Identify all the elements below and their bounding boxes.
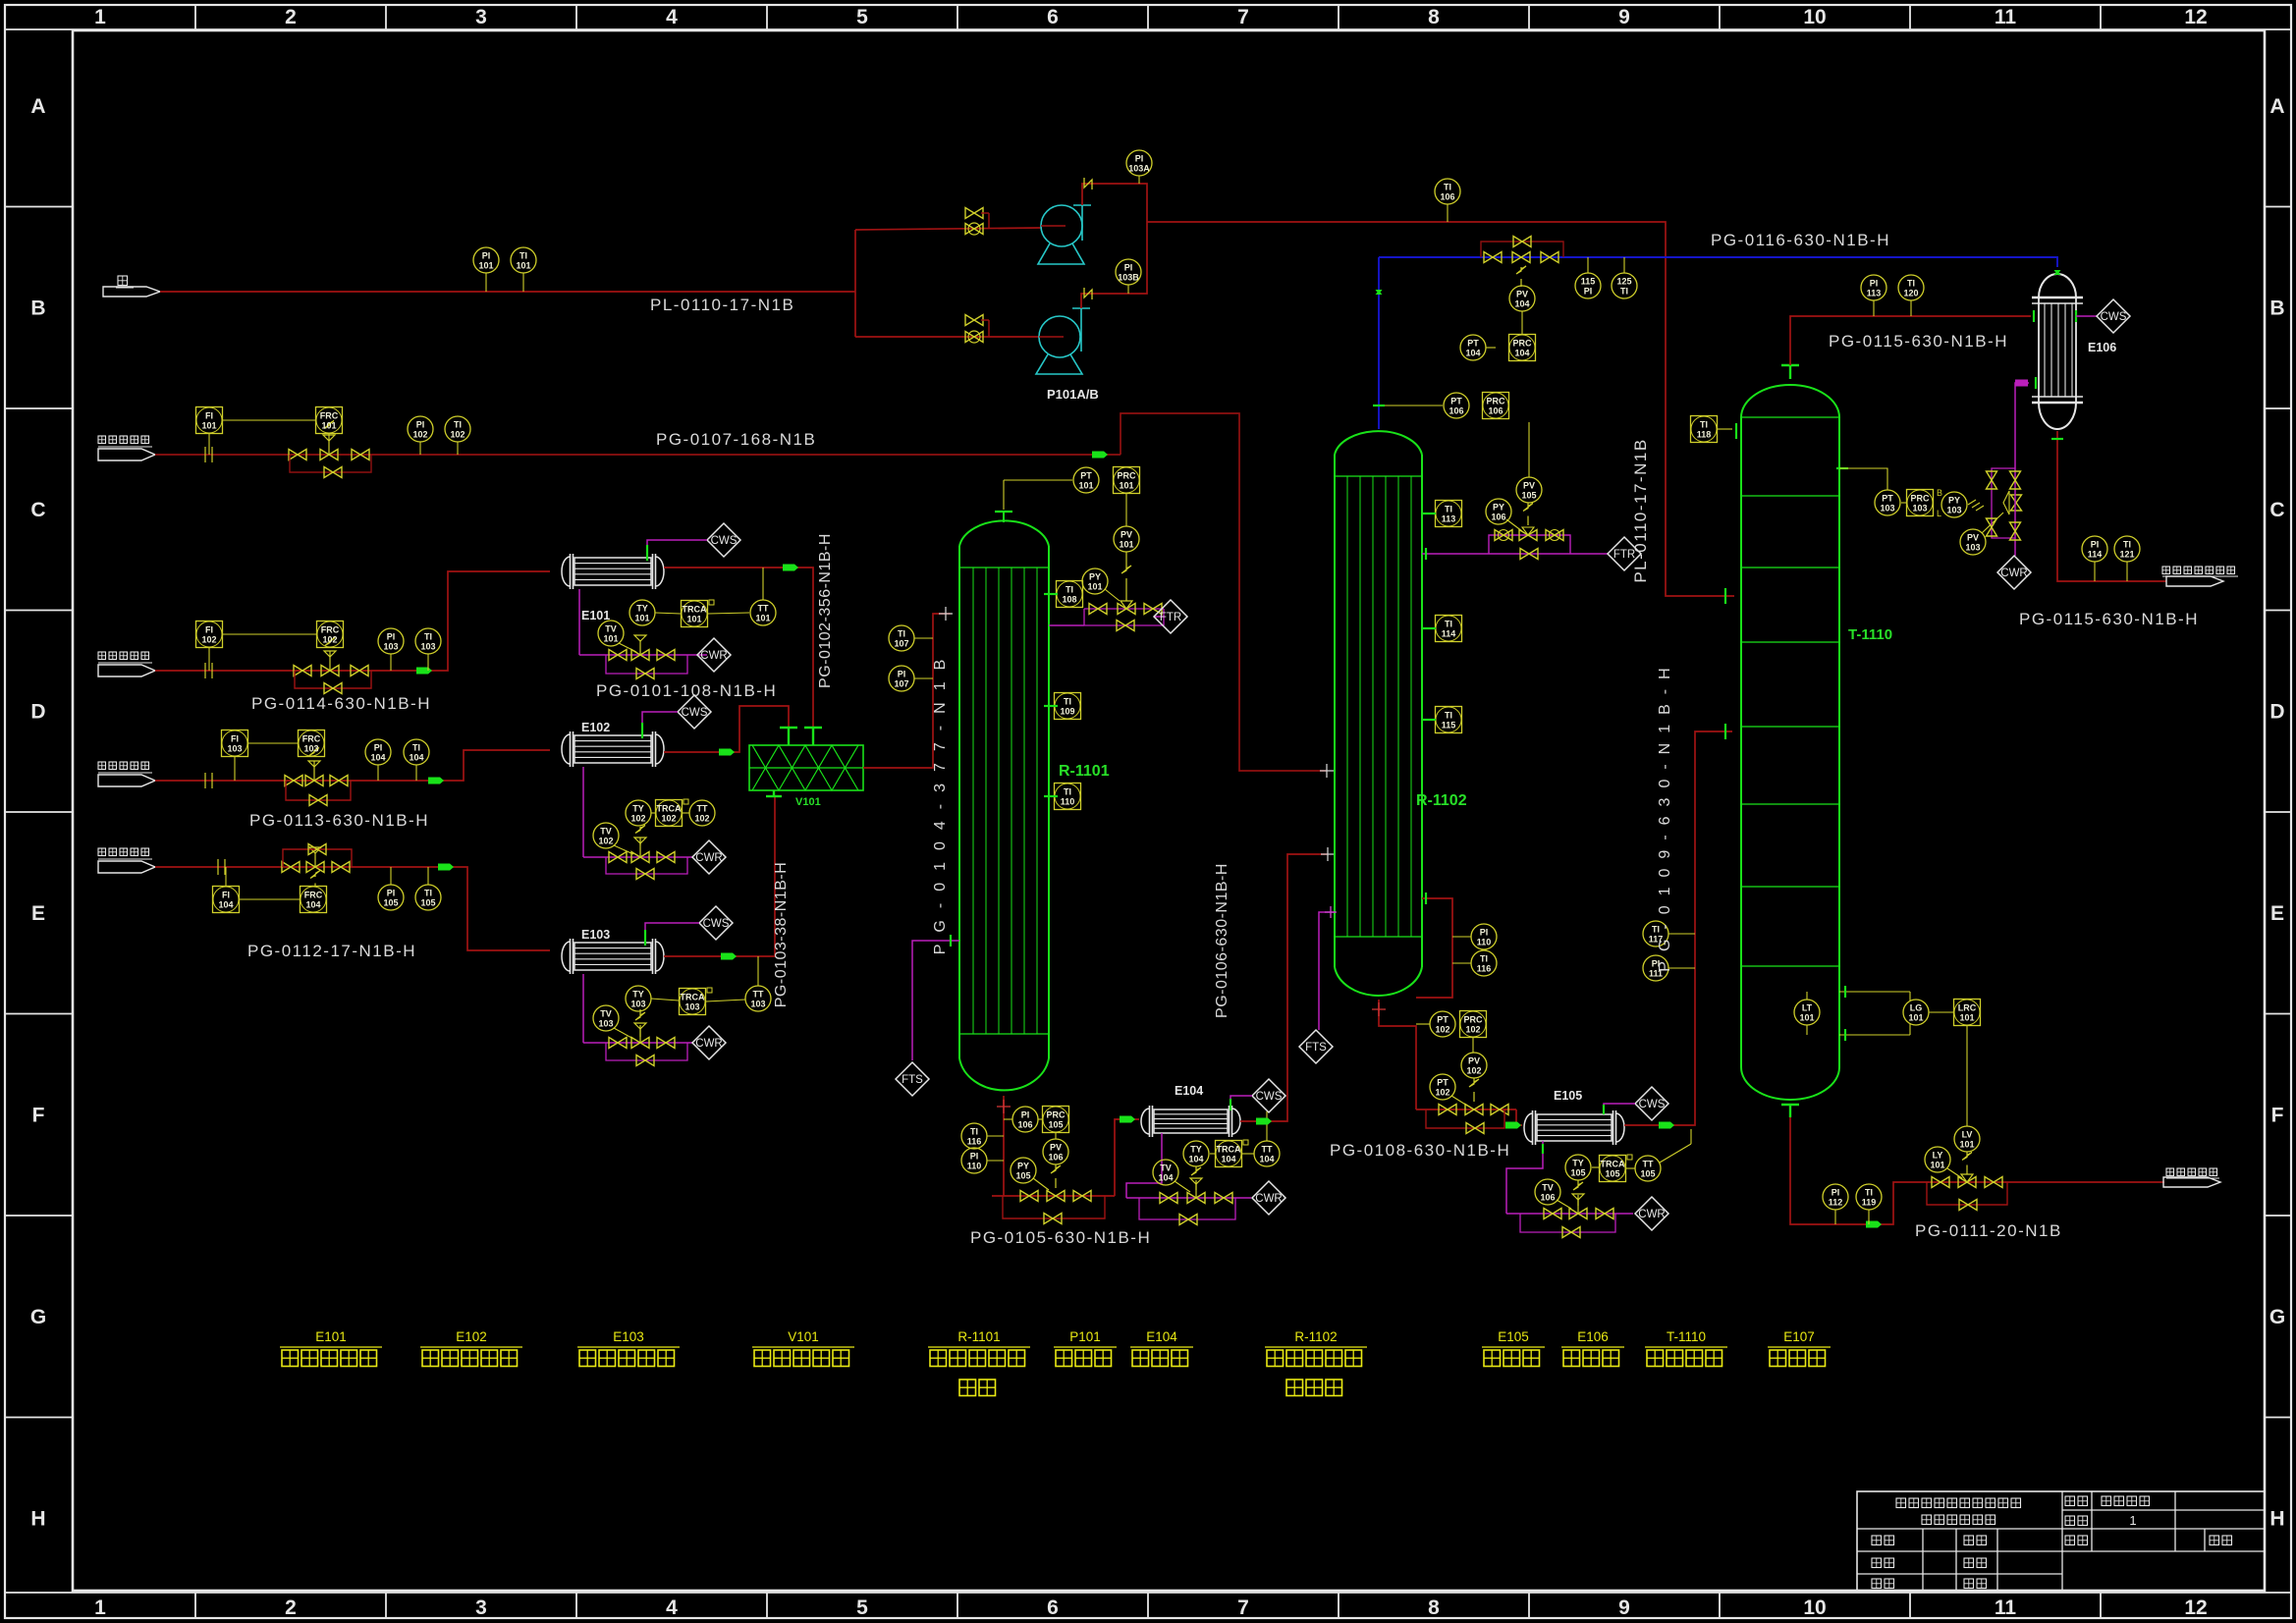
svg-text:PG-0105-630-N1B-H: PG-0105-630-N1B-H xyxy=(970,1228,1151,1247)
svg-text:12: 12 xyxy=(2184,6,2207,28)
wire pump suction loop xyxy=(855,228,1041,337)
svg-text:CWS: CWS xyxy=(2101,311,2127,323)
svg-text:PG-0108-630-N1B-H: PG-0108-630-N1B-H xyxy=(1330,1141,1510,1160)
svg-text:LRC: LRC xyxy=(1958,1003,1977,1013)
wire blue overhead line PG-0116 into R-1102 top xyxy=(1376,257,1383,429)
svg-text:3: 3 xyxy=(475,1596,487,1619)
node T-1110 water inlet tick xyxy=(1724,588,1726,604)
wire E101 outlet to V101 xyxy=(664,565,813,729)
svg-text:105: 105 xyxy=(1521,491,1536,501)
valve set on blue header xyxy=(1481,237,1563,288)
valve bypass cluster feed3 xyxy=(285,748,351,806)
svg-text:E107: E107 xyxy=(1783,1329,1815,1344)
svg-text:102: 102 xyxy=(1435,1025,1449,1035)
title block text xyxy=(1872,1496,2232,1589)
svg-text:A: A xyxy=(30,95,45,118)
svg-text:5: 5 xyxy=(856,1596,868,1619)
heat exchanger E102 xyxy=(562,731,664,767)
svg-text:V101: V101 xyxy=(795,796,821,808)
valve set E102 cooling xyxy=(609,838,675,880)
svg-text:102: 102 xyxy=(630,814,645,824)
node R-1102 side inlet tick xyxy=(1321,847,1335,861)
instrument TI117 on riser xyxy=(1643,921,1695,947)
svg-text:114: 114 xyxy=(1442,629,1456,639)
wire E102 outlet to V101 left tee xyxy=(664,706,789,756)
svg-text:V101: V101 xyxy=(788,1329,819,1344)
svg-text:R-1102: R-1102 xyxy=(1416,792,1467,809)
svg-text:G: G xyxy=(2269,1306,2285,1328)
svg-text:PI: PI xyxy=(898,670,906,679)
svg-text:103: 103 xyxy=(598,1019,613,1029)
svg-text:9: 9 xyxy=(1618,1596,1630,1619)
svg-text:CWS: CWS xyxy=(682,707,708,719)
instrument TT104 xyxy=(1254,1111,1280,1166)
instrument PV102 xyxy=(1461,1053,1487,1102)
svg-text:B: B xyxy=(30,298,45,320)
svg-text:TI: TI xyxy=(424,632,432,642)
instrument PY103 xyxy=(1941,492,1984,517)
svg-text:PI: PI xyxy=(1831,1188,1840,1198)
legend R-1102 xyxy=(1265,1329,1367,1396)
svg-text:E103: E103 xyxy=(613,1329,644,1344)
instrument TI121 xyxy=(2114,536,2140,581)
valve set E103 cooling xyxy=(609,1023,675,1066)
wire CWS magenta E105 xyxy=(1604,1104,1635,1114)
instrument PI113 overhead xyxy=(1861,275,1886,316)
svg-text:PRC: PRC xyxy=(1512,339,1532,349)
svg-text:PV: PV xyxy=(1468,1056,1480,1066)
svg-text:106: 106 xyxy=(1540,1193,1555,1203)
legend E101 xyxy=(280,1329,382,1367)
svg-text:116: 116 xyxy=(967,1137,982,1147)
wire R-1101 lower magenta to FTS xyxy=(912,935,959,1060)
node T-1110 gas inlet tick xyxy=(1724,724,1726,739)
feed arrow steam (gaoya shuizhengqi) xyxy=(98,848,155,873)
svg-text:PG-0107-168-N1B: PG-0107-168-N1B xyxy=(656,430,816,449)
cooling water CWS diamond E106 xyxy=(2097,299,2130,333)
svg-text:TI: TI xyxy=(1620,287,1628,297)
svg-text:TI: TI xyxy=(1700,420,1708,430)
legend E105 xyxy=(1482,1329,1545,1367)
svg-text:E: E xyxy=(2270,902,2284,925)
svg-text:E105: E105 xyxy=(1554,1089,1582,1103)
svg-text:118: 118 xyxy=(1697,430,1712,440)
svg-text:11: 11 xyxy=(1995,1596,2017,1619)
instrument FRC101 xyxy=(316,407,343,434)
svg-text:4: 4 xyxy=(666,1596,678,1619)
svg-text:TY: TY xyxy=(636,604,648,614)
instrument TI107 xyxy=(889,625,933,651)
instrument TV106 xyxy=(1535,1179,1571,1209)
wire E104 outlet riser to R-1102 xyxy=(1240,854,1328,1125)
pipe break symbol feed2 xyxy=(205,663,212,678)
product arrow to acrylic acid tank xyxy=(2163,1168,2220,1187)
svg-text:103A: 103A xyxy=(1128,164,1150,174)
instrument TI106 on header xyxy=(1435,179,1460,222)
node E106 top inlet arrow xyxy=(2054,259,2061,275)
wire R-1102 magenta to FTR with valves xyxy=(1422,503,1609,560)
svg-text:PV: PV xyxy=(1967,533,1979,543)
absorber column T-1110 xyxy=(1741,385,1839,1100)
svg-text:TI: TI xyxy=(424,889,432,898)
svg-text:2: 2 xyxy=(285,6,297,28)
svg-text:FI: FI xyxy=(205,625,213,635)
svg-text:103: 103 xyxy=(750,1000,765,1009)
legend E107 xyxy=(1768,1329,1831,1367)
svg-text:102: 102 xyxy=(322,635,337,645)
node R-1101 top nozzle xyxy=(995,512,1012,522)
label PG-0115-630-N1B-H lower xyxy=(2019,610,2199,628)
svg-text:101: 101 xyxy=(1087,582,1102,592)
svg-text:105: 105 xyxy=(1048,1120,1063,1130)
svg-text:TRCA: TRCA xyxy=(1601,1160,1625,1169)
svg-text:104: 104 xyxy=(1259,1155,1274,1164)
svg-text:PI: PI xyxy=(1124,263,1133,273)
svg-text:113: 113 xyxy=(1442,514,1456,524)
svg-text:T-1110: T-1110 xyxy=(1848,626,1892,643)
label PG-0107-168-N1B xyxy=(656,430,816,449)
svg-text:LG: LG xyxy=(1910,1003,1923,1013)
svg-text:E106: E106 xyxy=(1577,1329,1609,1344)
svg-text:106: 106 xyxy=(1491,513,1505,522)
wire T-1110 bottoms to product xyxy=(1790,1117,2164,1228)
svg-text:105: 105 xyxy=(420,898,435,908)
svg-text:R-1101: R-1101 xyxy=(957,1329,1000,1344)
svg-text:108: 108 xyxy=(1062,595,1076,605)
svg-text:FTR: FTR xyxy=(1613,549,1635,561)
valve pump B suction xyxy=(965,315,989,344)
svg-text:TY: TY xyxy=(632,804,644,814)
svg-text:3: 3 xyxy=(475,6,487,28)
wire CWS magenta E101 xyxy=(647,540,707,561)
flow diamond FTR right of R-1101 xyxy=(1154,600,1187,633)
instrument PT103 xyxy=(1875,490,1900,515)
instrument PV104 xyxy=(1509,286,1535,311)
valve bypass cluster feed4 (loop above) xyxy=(282,844,352,873)
label PG-0101-108-N1B-H xyxy=(596,681,777,700)
valve bypass cluster feed2 xyxy=(294,638,371,694)
svg-text:E104: E104 xyxy=(1146,1329,1177,1344)
svg-text:6: 6 xyxy=(1047,1596,1059,1619)
svg-text:PT: PT xyxy=(1080,471,1092,481)
svg-text:TI: TI xyxy=(2123,540,2131,550)
instrument TRCA104 xyxy=(1210,1140,1254,1167)
node V101 bottom tee xyxy=(766,790,782,796)
wire PG-0107 jog to R-1102 feed xyxy=(1092,413,1327,771)
svg-text:101: 101 xyxy=(634,614,649,623)
svg-text:106: 106 xyxy=(1017,1120,1032,1130)
svg-text:LY: LY xyxy=(1933,1151,1943,1161)
svg-text:E: E xyxy=(31,902,45,925)
title block table xyxy=(1857,1491,2265,1591)
svg-text:TI: TI xyxy=(1480,954,1488,964)
svg-text:103: 103 xyxy=(630,1000,645,1009)
label PG-0106-630-N1B-H vertical xyxy=(1214,863,1230,1018)
svg-text:PI: PI xyxy=(1870,279,1879,289)
svg-text:TRCA: TRCA xyxy=(683,605,707,615)
svg-text:E102: E102 xyxy=(581,721,610,734)
instrument LV101 xyxy=(1954,1126,1980,1174)
wire R-1101 bottom outlet xyxy=(997,1096,1011,1196)
flow diamond FTS below R-1101 xyxy=(896,1062,929,1096)
svg-text:H: H xyxy=(2269,1508,2284,1531)
svg-text:116: 116 xyxy=(1477,964,1492,974)
instrument PI104 xyxy=(365,739,391,781)
svg-text:105: 105 xyxy=(1015,1171,1030,1181)
instrument PI111 on riser xyxy=(1643,955,1695,981)
wire CWR magenta E103 with control valve xyxy=(583,974,692,1060)
svg-text:TV: TV xyxy=(1542,1183,1554,1193)
svg-text:FI: FI xyxy=(231,734,239,744)
svg-text:101: 101 xyxy=(686,615,701,624)
svg-text:1: 1 xyxy=(2129,1513,2136,1528)
svg-text:104: 104 xyxy=(1221,1155,1235,1164)
instrument TI113 on R-1102 xyxy=(1422,501,1462,527)
svg-text:FTS: FTS xyxy=(1305,1042,1327,1054)
instrument PT102 xyxy=(1416,1011,1455,1037)
instrument LG101 xyxy=(1903,1000,1953,1025)
instrument TI104 xyxy=(404,739,429,781)
instrument TI118 on T-1110 xyxy=(1691,416,1737,443)
instrument PV103 xyxy=(1960,513,2003,555)
heat exchanger E101 xyxy=(562,554,664,589)
svg-text:TI: TI xyxy=(454,420,462,430)
svg-text:104: 104 xyxy=(370,753,385,763)
label E102 xyxy=(581,721,610,734)
flow diamond FTR right of R-1102 xyxy=(1608,537,1641,570)
svg-text:B: B xyxy=(2269,298,2284,320)
svg-text:TI: TI xyxy=(898,629,905,639)
instrument PI106 bottom cluster xyxy=(1004,1107,1042,1132)
label R-1101 xyxy=(1059,763,1110,780)
svg-text:104: 104 xyxy=(1188,1155,1203,1164)
svg-text:C: C xyxy=(30,499,45,521)
instrument FI101 xyxy=(196,407,316,456)
instrument TY103 xyxy=(626,986,679,1011)
wire feed propylene to E102 xyxy=(155,750,550,784)
wire CWR magenta E101 with control valve xyxy=(579,589,707,674)
svg-text:PRC: PRC xyxy=(1486,397,1505,406)
svg-text:101: 101 xyxy=(201,421,216,431)
instrument PI110 bottom xyxy=(961,1148,1004,1173)
instrument PRC106 xyxy=(1483,393,1509,419)
svg-text:101: 101 xyxy=(1959,1140,1974,1150)
svg-text:CWS: CWS xyxy=(703,918,730,930)
instrument PRC102 xyxy=(1460,1011,1487,1054)
svg-text:TI: TI xyxy=(1064,697,1071,707)
instrument PI103 xyxy=(378,628,404,671)
svg-text:105: 105 xyxy=(1605,1169,1619,1179)
svg-text:104: 104 xyxy=(1465,349,1480,358)
instrument PI115 on blue header xyxy=(1575,257,1601,298)
svg-text:102: 102 xyxy=(661,814,676,824)
control valve on CWR riser xyxy=(2003,491,2022,514)
svg-text:CWR: CWR xyxy=(695,852,722,864)
svg-text:110: 110 xyxy=(967,1162,982,1171)
svg-text:H: H xyxy=(30,1508,45,1531)
svg-text:E102: E102 xyxy=(456,1329,487,1344)
svg-text:PT: PT xyxy=(1437,1015,1449,1025)
svg-text:103: 103 xyxy=(1880,504,1894,514)
reactor R-1101 vessel xyxy=(959,520,1049,1090)
svg-text:102: 102 xyxy=(1435,1088,1449,1098)
svg-text:101: 101 xyxy=(1119,540,1133,550)
svg-text:120: 120 xyxy=(1903,289,1918,298)
svg-text:8: 8 xyxy=(1428,6,1440,28)
svg-text:B: B xyxy=(1937,488,1942,498)
svg-text:PY: PY xyxy=(1017,1162,1029,1171)
svg-text:102: 102 xyxy=(694,814,709,824)
svg-text:103: 103 xyxy=(1912,504,1927,514)
svg-text:101: 101 xyxy=(755,614,770,623)
svg-text:PV: PV xyxy=(1523,481,1535,491)
node T-1110 top nozzle tee xyxy=(1781,365,1799,379)
feed arrow air-1 (kongqi zi gaoya) xyxy=(98,436,155,460)
label PG-0104-377-N1B vertical xyxy=(932,648,949,955)
svg-text:102: 102 xyxy=(412,430,427,440)
svg-text:TT: TT xyxy=(758,604,769,614)
svg-text:E101: E101 xyxy=(315,1329,347,1344)
svg-text:PT: PT xyxy=(1450,397,1462,406)
svg-text:PI: PI xyxy=(1480,928,1489,938)
svg-text:T-1110: T-1110 xyxy=(1667,1329,1706,1344)
svg-text:101: 101 xyxy=(1930,1161,1944,1170)
valve bypass R-1101 overhead magenta xyxy=(1049,601,1164,631)
svg-text:109: 109 xyxy=(1060,707,1074,717)
svg-text:110: 110 xyxy=(1477,938,1492,947)
instrument TT101 xyxy=(750,568,776,625)
label T-1110 xyxy=(1848,626,1892,643)
svg-text:PG-0113-630-N1B-H: PG-0113-630-N1B-H xyxy=(249,811,429,830)
svg-text:PG-0102-356-N1B-H: PG-0102-356-N1B-H xyxy=(817,533,834,688)
pipe break symbol feed4 xyxy=(218,859,225,875)
svg-text:CWR: CWR xyxy=(1638,1209,1665,1220)
node E106 lower left nozzle tick xyxy=(2035,377,2037,389)
svg-text:TRCA: TRCA xyxy=(657,804,682,814)
instrument PT104 xyxy=(1460,335,1496,360)
svg-text:PRC: PRC xyxy=(1117,471,1136,481)
svg-text:CWR: CWR xyxy=(1255,1193,1282,1205)
node E106 left inlet tick xyxy=(2033,310,2035,322)
svg-text:TV: TV xyxy=(1160,1163,1172,1173)
ruler numbers top xyxy=(94,6,2208,28)
svg-text:TI: TI xyxy=(1444,183,1451,192)
svg-text:1: 1 xyxy=(94,6,106,28)
instrument PY105 xyxy=(1011,1158,1049,1190)
cooling water CWR diamond E103 xyxy=(692,1026,726,1059)
svg-text:PG-0115-630-N1B-H: PG-0115-630-N1B-H xyxy=(1829,332,2008,351)
label E105 xyxy=(1554,1089,1582,1103)
valve bypass cluster feed1 xyxy=(289,421,371,478)
label PG-0113-630-N1B-H xyxy=(249,811,429,830)
instrument LRC101 xyxy=(1954,1000,1981,1127)
instrument TY105 xyxy=(1565,1155,1591,1206)
cooling water CWR diamond E105 xyxy=(1635,1197,1668,1230)
svg-text:FI: FI xyxy=(205,411,213,421)
wire CWS magenta E102 xyxy=(642,712,678,738)
label PG-0115-630-N1B-H overhead xyxy=(1829,332,2008,351)
svg-text:7: 7 xyxy=(1237,1596,1249,1619)
cooling water CWS diamond E102 xyxy=(678,695,711,729)
instrument TI110 on R-1101 xyxy=(1044,784,1081,810)
svg-text:102: 102 xyxy=(450,430,465,440)
node V101 top tee 2 xyxy=(804,728,822,745)
label E106 xyxy=(2088,341,2116,354)
svg-text:101: 101 xyxy=(603,634,618,644)
svg-text:TI: TI xyxy=(412,743,420,753)
node junction tick R-1102 inlet xyxy=(1320,764,1334,778)
svg-text:E105: E105 xyxy=(1498,1329,1529,1344)
instrument PRC101 xyxy=(1114,467,1140,527)
wire feed air-1 line PG-0107 xyxy=(155,454,1121,456)
svg-text:125: 125 xyxy=(1616,277,1631,287)
label E101 xyxy=(581,609,610,622)
legend V101 xyxy=(752,1329,854,1367)
instrument TI109 on R-1101 xyxy=(1044,693,1081,720)
wire R-1102 bottom outlet to valve set xyxy=(1372,1000,1416,1109)
svg-text:TI: TI xyxy=(970,1127,978,1137)
instrument TI105 xyxy=(415,867,441,910)
instrument FRC102 xyxy=(317,622,344,648)
svg-text:E106: E106 xyxy=(2088,341,2116,354)
svg-text:114: 114 xyxy=(2088,550,2103,560)
svg-text:8: 8 xyxy=(1428,1596,1440,1619)
svg-text:LT: LT xyxy=(1802,1003,1813,1013)
label V101 xyxy=(795,796,821,808)
svg-text:104: 104 xyxy=(218,900,233,910)
svg-text:107: 107 xyxy=(894,639,908,649)
instrument TI103 xyxy=(415,628,441,671)
heat exchanger E103 xyxy=(562,939,664,974)
wire pump A discharge xyxy=(1082,178,1147,222)
wire feed air-2 to E101 xyxy=(155,571,550,675)
svg-text:PI: PI xyxy=(970,1152,979,1162)
svg-text:PY: PY xyxy=(1948,496,1960,506)
instrument TRCA103 xyxy=(680,988,746,1015)
legend R-1101 xyxy=(928,1329,1030,1396)
instrument PV105 xyxy=(1516,422,1542,503)
svg-text:R-1102: R-1102 xyxy=(1294,1329,1337,1344)
label PL-0110-17-N1B xyxy=(650,296,794,314)
svg-text:PG-0112-17-N1B-H: PG-0112-17-N1B-H xyxy=(247,942,416,960)
svg-text:F: F xyxy=(2271,1105,2284,1127)
svg-text:TY: TY xyxy=(632,990,644,1000)
wire feed steam to E103 xyxy=(155,864,550,951)
wire CWR magenta E102 with control valve xyxy=(583,767,692,874)
pump P101A xyxy=(1038,205,1091,264)
instrument FRC104 xyxy=(301,871,327,913)
instrument PY106 xyxy=(1486,499,1522,531)
svg-text:10: 10 xyxy=(1803,6,1826,28)
svg-text:TT: TT xyxy=(697,804,708,814)
svg-text:102: 102 xyxy=(1465,1025,1480,1035)
legend P101 xyxy=(1054,1329,1117,1367)
svg-text:104: 104 xyxy=(1158,1173,1173,1183)
cooling water CWR diamond E101 xyxy=(697,638,731,672)
svg-text:P101: P101 xyxy=(1069,1329,1101,1344)
instrument TI120 overhead xyxy=(1898,275,1924,316)
instrument TI108 on R-1101 xyxy=(1044,581,1083,608)
svg-text:PI: PI xyxy=(482,251,491,261)
ruler numbers bottom xyxy=(94,1596,2208,1619)
instrument FRC103 xyxy=(299,730,325,757)
label PG-0114-630-N1B-H xyxy=(251,694,431,713)
feed arrow water (shui) xyxy=(103,276,160,297)
svg-text:TRCA: TRCA xyxy=(681,993,705,1002)
svg-text:103: 103 xyxy=(1946,506,1961,515)
instrument PI105 xyxy=(378,867,404,910)
svg-text:2: 2 xyxy=(285,1596,297,1619)
